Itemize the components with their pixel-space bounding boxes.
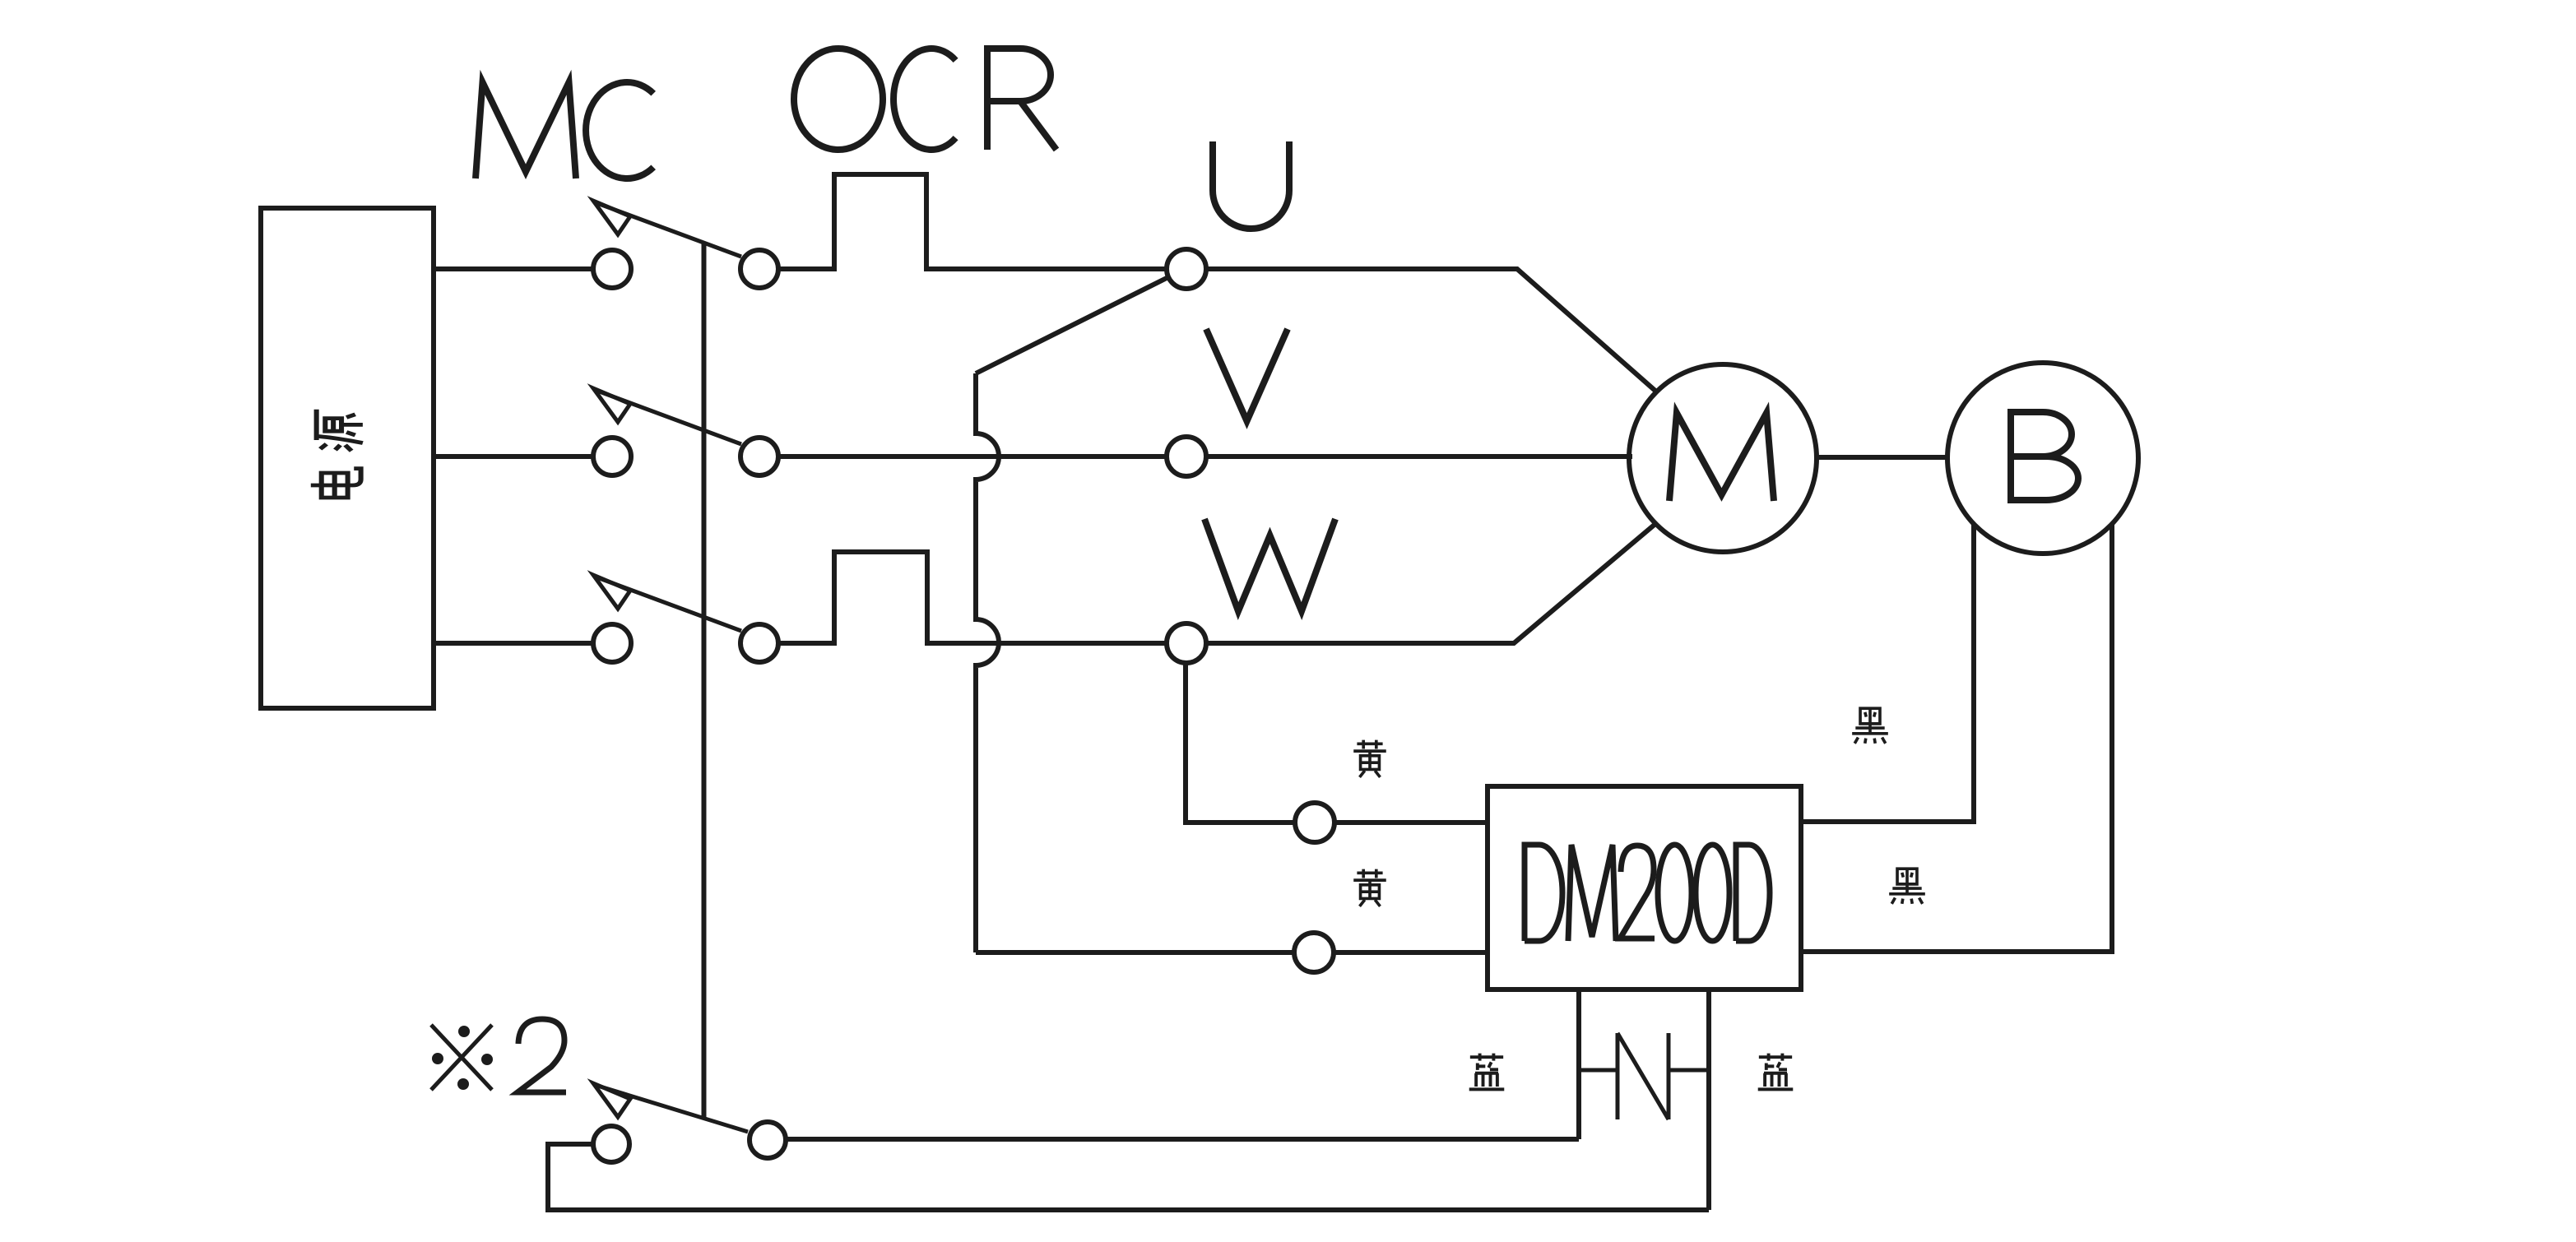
terminal V circle (1167, 437, 1206, 476)
wire L3 from source to MC (434, 641, 593, 646)
MC pole 3 arrowhead (593, 575, 630, 609)
label ※ (431, 1025, 493, 1090)
label M motor (1669, 413, 1774, 501)
label 黑 upper (1852, 708, 1888, 744)
label OCR (794, 49, 1056, 150)
aux switch arrowhead (593, 1083, 630, 1117)
DM200D box (1488, 786, 1801, 989)
wire aux contact to N left (786, 1137, 1579, 1142)
splice circle lower 黄 (1294, 933, 1334, 972)
label DM200D (1525, 845, 1770, 941)
DM200D left bottom stub (1576, 989, 1581, 1139)
label U (1213, 141, 1289, 229)
label 蓝 right (1758, 1054, 1794, 1090)
MC pole 2 arrowhead (593, 388, 630, 422)
wire U to motor (1206, 269, 1656, 392)
wire L2 through OCR (778, 454, 1167, 459)
label W (1204, 519, 1335, 611)
wire splice to DM200D lower (1334, 950, 1488, 955)
power source box 电源 (261, 208, 434, 708)
wire V to motor (1207, 454, 1632, 459)
label 黄 lower (1353, 869, 1386, 906)
label 源 (rotated) (317, 410, 363, 451)
OCR heater L3 (778, 552, 1166, 643)
wire L1 from source to MC (434, 266, 593, 271)
MC pole 3 left contact (593, 624, 631, 662)
MC linkage bar (702, 243, 707, 1117)
aux switch arm (595, 1085, 748, 1132)
crossover wire from U down-left (976, 277, 1168, 373)
MC pole 1 arrowhead (593, 201, 630, 234)
label 电 (rotated) (311, 469, 361, 498)
MC pole 2 left contact (593, 438, 631, 475)
crossover vertical with hops (976, 373, 999, 952)
splice circle upper 黄 (1295, 803, 1334, 842)
motor M circle (1629, 364, 1817, 552)
label 黑 lower (1889, 869, 1925, 904)
wire brake right leg to DM200D (1801, 525, 2112, 952)
wire W to motor (1205, 524, 1655, 643)
label MC (476, 82, 653, 178)
MC pole 1 right contact (740, 250, 778, 288)
label V (1206, 329, 1288, 421)
wire motor to brake (1817, 455, 1948, 460)
wire W drop (1186, 663, 1295, 823)
MC pole 1 arm (595, 202, 741, 257)
MC pole 3 arm (595, 577, 741, 631)
aux switch ※2 right contact (750, 1122, 786, 1158)
MC pole 3 right contact (740, 624, 778, 662)
label 黄 upper (1353, 740, 1386, 777)
aux switch ※2 left contact (593, 1126, 629, 1162)
wire L2 from source to MC (434, 454, 593, 459)
wire brake left leg to DM200D (1801, 524, 1974, 822)
MC pole 1 left contact (593, 250, 631, 288)
wire splice to DM200D upper (1334, 820, 1488, 825)
label B brake (2011, 412, 2078, 500)
wire crossover to DM200D lower input (976, 950, 1294, 955)
label 蓝 left (1469, 1054, 1505, 1090)
wire aux left loop (548, 1144, 1709, 1210)
OCR heater L1 (778, 174, 1167, 269)
MC pole 2 arm (595, 390, 741, 444)
terminal W circle (1167, 623, 1206, 663)
brake B circle (1947, 363, 2138, 554)
MC pole 2 right contact (740, 438, 778, 475)
label 2 of ※2 (518, 1019, 566, 1092)
terminal U circle (1167, 249, 1206, 289)
N terminal symbol (1579, 1033, 1709, 1119)
DM200D right bottom stub (1706, 989, 1711, 1210)
